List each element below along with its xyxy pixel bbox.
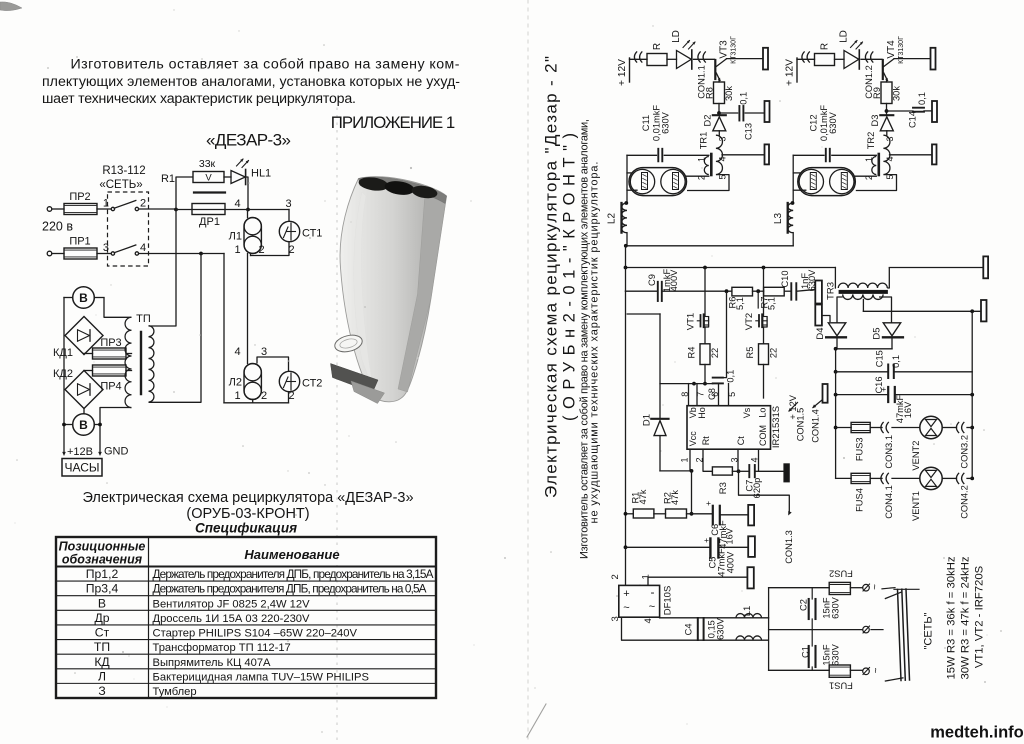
svg-text:FUS2: FUS2 — [829, 569, 853, 579]
transistor VT3 — [714, 60, 716, 79]
wire left rail — [63, 298, 65, 453]
wire lamp feed vertical — [792, 155, 794, 203]
wire — [850, 669, 862, 671]
switch S1 contacts 1-2 — [111, 207, 114, 210]
svg-text:30k: 30k — [724, 86, 734, 101]
svg-text:R8: R8 — [704, 87, 714, 99]
wire pin8 — [688, 384, 690, 406]
svg-text:R4: R4 — [686, 347, 696, 359]
resistor R5 22 — [759, 344, 769, 365]
svg-text:47k: 47k — [638, 489, 648, 504]
svg-text:0,1: 0,1 — [739, 92, 749, 105]
wire — [718, 104, 720, 116]
wire LED to lamp bus — [246, 177, 248, 210]
svg-text:3: 3 — [730, 457, 740, 462]
svg-text:22: 22 — [769, 348, 779, 358]
svg-text:КД1: КД1 — [53, 347, 73, 359]
svg-text:~: ~ — [871, 667, 882, 673]
svg-text:L3: L3 — [773, 213, 784, 225]
resistor R (LED ballast) 2 — [815, 54, 835, 66]
scan speckles — [652, 25, 653, 26]
page fold line — [527, 0, 529, 744]
wire — [822, 316, 830, 323]
wire — [763, 365, 765, 399]
svg-text:+: + — [706, 498, 711, 508]
svg-text:~: ~ — [623, 602, 629, 614]
wire primary right — [887, 268, 889, 289]
svg-text:Л2: Л2 — [229, 377, 242, 389]
svg-text:C15: C15 — [875, 350, 885, 367]
wire — [886, 104, 888, 116]
terminal input bottom — [47, 251, 52, 256]
supply +12В arrow — [62, 452, 66, 456]
svg-text:шает технических характеристик: шает технических характеристик рециркуля… — [42, 91, 356, 107]
wire right fan rail — [971, 311, 973, 478]
wire — [201, 253, 224, 255]
svg-text:~: ~ — [870, 584, 881, 590]
svg-text:5,1: 5,1 — [767, 297, 777, 310]
svg-text:+12В: +12В — [67, 446, 93, 458]
mains pin circle — [863, 584, 870, 591]
page corner mark bottom-left of right page — [527, 704, 546, 737]
node junction — [725, 289, 729, 293]
svg-text:7: 7 — [696, 392, 706, 397]
svg-text:Трансформатор ТП 112-17: Трансформатор ТП 112-17 — [153, 642, 291, 654]
svg-text:400V: 400V — [725, 551, 735, 574]
svg-text:Позиционные: Позиционные — [59, 540, 146, 554]
svg-text:4: 4 — [234, 346, 240, 358]
svg-text:C10: C10 — [780, 270, 790, 287]
svg-text:TR2: TR2 — [866, 132, 876, 150]
node junction under switch — [199, 252, 203, 256]
block ЧАСЫ — [62, 459, 102, 477]
svg-text:Vs: Vs — [742, 407, 752, 418]
svg-text:не ухудшающими технических хар: не ухудшающими технических характеристик… — [588, 162, 600, 524]
svg-text:630V: 630V — [828, 111, 838, 134]
svg-text:630V: 630V — [716, 617, 726, 640]
wire — [52, 208, 64, 210]
capacitor C9 1mkF 400V — [626, 290, 657, 292]
terminal plate — [765, 144, 770, 164]
svg-text:Rt: Rt — [701, 436, 711, 445]
svg-text:16V: 16V — [725, 527, 735, 544]
svg-text:CON3.2: CON3.2 — [959, 435, 969, 469]
wire pin3 mains — [622, 617, 769, 640]
wire — [753, 290, 764, 292]
svg-text:ДР1: ДР1 — [199, 216, 220, 228]
svg-text:30k: 30k — [891, 86, 901, 101]
wire — [694, 58, 715, 60]
wire left supply rail — [625, 291, 627, 585]
svg-text:В: В — [79, 418, 88, 432]
fan B2 — [73, 414, 95, 436]
transistor VT1 mosfet — [704, 268, 706, 317]
fuse ПР3 — [93, 348, 127, 359]
wire lamp1 to lamp2 — [247, 254, 249, 364]
wire pin1 to common plate — [648, 577, 747, 585]
wire filtered node rail — [768, 588, 770, 671]
fan row FUS4 VENT1 — [836, 477, 852, 479]
wire pin5 loop — [856, 175, 897, 191]
wire pin4 to plate — [890, 154, 933, 156]
svg-text:C13: C13 — [744, 123, 754, 140]
connector CON1.1 — [698, 51, 701, 62]
svg-text:СТ2: СТ2 — [302, 378, 322, 390]
svg-text:R13-112: R13-112 — [102, 165, 145, 177]
svg-text:C2: C2 — [798, 599, 808, 611]
wire pin4 to plate — [722, 154, 765, 156]
svg-text:Спецификация: Спецификация — [195, 521, 297, 536]
svg-text:«СЕТЬ»: «СЕТЬ» — [99, 179, 142, 191]
starter СТ2 — [279, 371, 299, 391]
resistor R9 30k — [881, 82, 892, 104]
wire DC rail lower with C16 — [836, 394, 888, 396]
perforation dotted line — [336, 108, 338, 744]
wire pin5 loop — [687, 175, 729, 191]
svg-text:CON1.4: CON1.4 — [810, 409, 820, 443]
svg-text:Пр3,4: Пр3,4 — [86, 582, 119, 596]
resistor R1 47k — [626, 513, 634, 515]
wire pin7 — [696, 384, 698, 406]
wire — [654, 513, 666, 515]
wire lamp feed vertical — [626, 155, 628, 203]
transformer TR3 — [834, 268, 836, 289]
svg-text:C9: C9 — [647, 274, 657, 286]
terminal plate — [747, 567, 753, 588]
terminal plate — [981, 300, 987, 321]
svg-text:3: 3 — [885, 136, 895, 141]
svg-text:DF10S: DF10S — [663, 586, 674, 616]
IC U1 IR21531S — [687, 406, 771, 450]
wire center tap — [862, 300, 864, 312]
fuse ПР2 — [64, 204, 97, 215]
svg-text:LD: LD — [671, 30, 682, 43]
wire — [763, 327, 765, 344]
wire — [627, 313, 660, 315]
svg-text:L1: L1 — [742, 606, 753, 617]
svg-text:Л1: Л1 — [229, 231, 242, 243]
terminal plate pair TR3 input — [815, 281, 822, 304]
svg-text:5: 5 — [727, 392, 737, 397]
capacitor C10 1nF 630V — [784, 290, 790, 292]
choke L1 common-mode — [736, 614, 762, 618]
diode D2 — [713, 114, 726, 116]
wire — [139, 208, 176, 210]
svg-text:C14: C14 — [908, 111, 918, 128]
svg-text:Стартер PHILIPS S104 –65W 220–: Стартер PHILIPS S104 –65W 220–240V — [153, 628, 358, 640]
svg-text:В: В — [98, 596, 106, 610]
terminal plate — [748, 536, 755, 557]
node junction — [885, 109, 889, 113]
svg-text:КТ3130Г: КТ3130Г — [898, 36, 905, 64]
capacitor C8 0,1 — [713, 377, 723, 379]
svg-text:обозначения: обозначения — [62, 553, 143, 567]
svg-text:КТ3130Г: КТ3130Г — [730, 36, 737, 64]
terminal plate — [932, 101, 937, 122]
lamp Л1 — [247, 210, 249, 218]
svg-text:R9: R9 — [872, 87, 882, 99]
wire lamp top bus — [176, 209, 289, 211]
svg-text:47k: 47k — [670, 490, 680, 505]
resistor R (LED ballast) 1 — [647, 54, 667, 66]
svg-text:630V: 630V — [831, 596, 841, 619]
svg-text:IR21531S: IR21531S — [771, 406, 782, 448]
svg-text:4: 4 — [643, 618, 654, 623]
connector CON1.4 — [823, 384, 828, 403]
wire DC rail upper with C15 — [836, 371, 888, 373]
resistor R8 30k — [714, 82, 725, 104]
resistor R6 5,1 — [732, 287, 753, 296]
capacitor C6 47mkF 16V — [712, 506, 714, 525]
svg-text:ПРИЛОЖЕНИЕ 1: ПРИЛОЖЕНИЕ 1 — [331, 113, 456, 132]
svg-text:3: 3 — [261, 346, 267, 358]
wire — [704, 327, 706, 344]
svg-text:D1: D1 — [642, 414, 653, 426]
svg-text:ТП: ТП — [94, 640, 110, 654]
table Спецификация — [56, 537, 436, 698]
wire lamp2 bottom — [224, 402, 289, 404]
svg-text:ПР1: ПР1 — [69, 236, 90, 248]
svg-text:R: R — [819, 43, 830, 50]
node junction — [717, 111, 721, 115]
svg-text:630V: 630V — [660, 111, 670, 134]
svg-text:1: 1 — [864, 157, 874, 162]
svg-text:0,1: 0,1 — [917, 92, 927, 105]
wire pin1 — [832, 154, 877, 156]
svg-text:Тумблер: Тумблер — [153, 686, 197, 698]
wire — [704, 365, 706, 384]
wire pin2 — [687, 175, 709, 177]
wire — [797, 58, 815, 60]
svg-text:1: 1 — [234, 390, 240, 402]
svg-text:33к: 33к — [199, 158, 216, 170]
choke ДР1 — [194, 191, 225, 193]
svg-text:CON4.2: CON4.2 — [959, 485, 969, 519]
svg-text:0,1: 0,1 — [725, 370, 735, 383]
resistor R3 — [712, 467, 732, 475]
wire cathode join — [836, 348, 892, 350]
svg-text:CON4.1: CON4.1 — [884, 485, 894, 519]
svg-text:Л: Л — [98, 669, 106, 683]
svg-text:22: 22 — [710, 348, 720, 358]
svg-text:D2: D2 — [703, 115, 713, 127]
wire collector — [727, 58, 764, 60]
wire lamp1 bottom — [251, 242, 290, 256]
svg-text:КД2: КД2 — [53, 368, 73, 380]
wire — [861, 58, 882, 60]
svg-text:ПР3: ПР3 — [100, 337, 121, 349]
wire long vertical to lamp2 circuit — [223, 254, 225, 403]
LED LD 2 — [844, 51, 859, 69]
svg-text:Электрическая схема рециркулят: Электрическая схема рециркулятора "Дезар… — [541, 56, 560, 498]
svg-text:1: 1 — [697, 157, 707, 162]
svg-text:R1: R1 — [161, 173, 175, 185]
terminal plate — [931, 48, 936, 70]
capacitor C2 15nF 630V — [811, 588, 813, 599]
terminal plate solid — [784, 464, 789, 482]
wire D1 to Vcc to R2 — [660, 470, 692, 472]
wire lamp2 top to starter — [257, 357, 289, 371]
transistor VT4 — [882, 60, 884, 79]
photo top vents — [358, 176, 389, 193]
wire to FUS1 — [769, 669, 830, 671]
svg-text:D3: D3 — [870, 115, 880, 127]
svg-text:400V: 400V — [669, 269, 679, 292]
wire — [667, 58, 677, 60]
svg-text:FUS1: FUS1 — [829, 681, 853, 691]
svg-text:0,1: 0,1 — [891, 355, 901, 368]
svg-text:Ho: Ho — [697, 407, 707, 419]
ground GND arrow — [98, 452, 102, 456]
connector break — [634, 51, 637, 62]
wire — [850, 587, 862, 589]
capacitor C12 0,01mkF 630V — [825, 149, 827, 162]
wire to FUS2 — [769, 587, 830, 589]
wire — [882, 588, 895, 589]
wire pin2 — [855, 175, 876, 177]
terminal plate — [932, 144, 937, 164]
svg-text:Пр1,2: Пр1,2 — [86, 567, 119, 581]
svg-text:630V: 630V — [831, 643, 841, 666]
mains cable СЕТЬ symbol — [898, 590, 902, 681]
wire secondary left to D4 — [837, 297, 843, 323]
svg-text:CON1.5: CON1.5 — [796, 408, 806, 442]
svg-text:Vcc: Vcc — [688, 431, 698, 447]
svg-text:ЧАСЫ: ЧАСЫ — [64, 461, 99, 475]
svg-text:+ 12V: + 12V — [784, 59, 795, 86]
svg-text:-: - — [651, 585, 655, 599]
resistor R7 5,1 — [764, 287, 785, 296]
fuse FUS1 — [829, 665, 850, 677]
svg-text:плектующих элементов аналогами: плектующих элементов аналогами, установк… — [42, 74, 460, 90]
svg-text:R: R — [652, 43, 663, 50]
fan row FUS3 VENT2 — [836, 427, 852, 429]
wire transformer primary top — [149, 210, 177, 327]
svg-text:4: 4 — [234, 198, 240, 210]
svg-text:VT4: VT4 — [886, 40, 897, 59]
svg-text:1: 1 — [680, 457, 690, 462]
svg-text:+: + — [704, 535, 709, 545]
svg-text:L2: L2 — [607, 213, 618, 225]
diode D3 — [880, 114, 893, 116]
wire — [792, 233, 794, 246]
wire pin2 Rt — [703, 449, 712, 471]
svg-text:VT3: VT3 — [718, 40, 729, 59]
capacitor C16 47mkF 16V — [887, 387, 889, 402]
wire — [97, 253, 111, 255]
svg-text:Др: Др — [94, 611, 109, 625]
svg-text:2: 2 — [258, 244, 264, 256]
svg-text:R3: R3 — [718, 482, 729, 494]
transistor VT2 mosfet — [763, 268, 765, 317]
rectifier bridge КД2 — [65, 371, 103, 409]
svg-text:C16: C16 — [874, 376, 884, 393]
svg-text:Ст: Ст — [95, 626, 110, 640]
svg-text:LD: LD — [838, 30, 849, 43]
choke L2 — [620, 203, 622, 233]
svg-text:GND: GND — [104, 446, 129, 458]
lamp tube 1 — [629, 168, 687, 196]
svg-text:+ 12V: + 12V — [617, 59, 628, 86]
wire collector — [894, 58, 931, 60]
diode D1 — [659, 314, 661, 418]
wire — [719, 112, 738, 114]
svg-text:C1: C1 — [800, 646, 810, 658]
svg-text:Lo: Lo — [758, 408, 768, 418]
svg-text:VENT2: VENT2 — [911, 441, 921, 471]
svg-text:8: 8 — [680, 392, 690, 397]
svg-text:"СЕТЬ": "СЕТЬ" — [922, 612, 934, 649]
fan B1 — [73, 287, 95, 309]
svg-text:~: ~ — [649, 601, 655, 613]
svg-text:D5: D5 — [871, 327, 882, 339]
capacitor C11 0,01mkF 630V — [657, 149, 659, 162]
svg-text:Наименование: Наименование — [244, 547, 339, 562]
svg-text:Ct: Ct — [736, 436, 746, 445]
wire winding bottom left — [100, 408, 132, 453]
svg-text:220 в: 220 в — [42, 220, 73, 234]
svg-text:COM: COM — [758, 425, 768, 446]
svg-text:HL1: HL1 — [251, 168, 271, 180]
fuse ПР1 — [64, 248, 97, 259]
wire transformer bottom return — [149, 254, 202, 403]
terminal plate — [983, 256, 988, 278]
wire chip top bus — [660, 383, 713, 385]
svg-text:3: 3 — [285, 198, 291, 210]
transformer TR1 — [716, 135, 723, 174]
wire pin4 COM — [758, 449, 760, 471]
connector CON1.2 — [865, 51, 868, 62]
wire bus to TR3 primary — [626, 267, 836, 269]
LED HL1 — [231, 171, 245, 184]
wire — [52, 253, 64, 255]
wire — [625, 246, 627, 291]
svg-text:Держатель предохранителя ДПБ,: Держатель предохранителя ДПБ, предохрани… — [153, 567, 434, 581]
capacitor C5 47mkF 400V — [624, 545, 628, 549]
svg-text:C12: C12 — [809, 114, 819, 131]
capacitor C7 620p — [739, 470, 749, 472]
terminal plate — [748, 505, 754, 526]
svg-text:«ДЕЗАР-3»: «ДЕЗАР-3» — [206, 130, 291, 149]
switch S1 contacts 3-4 — [111, 252, 114, 255]
resistor R2 47k — [666, 509, 687, 518]
svg-text:4: 4 — [885, 156, 895, 161]
wire — [104, 298, 132, 318]
svg-text:ПР2: ПР2 — [69, 191, 90, 203]
svg-text:Изготовитель оставляет за собо: Изготовитель оставляет за собой право на… — [71, 56, 460, 72]
svg-text:КД: КД — [94, 655, 110, 669]
photo base dark band — [331, 364, 379, 393]
svg-text:В: В — [79, 291, 88, 305]
svg-text:V: V — [205, 173, 212, 184]
wire — [886, 131, 888, 135]
svg-text:ПР4: ПР4 — [100, 381, 121, 393]
svg-text:D4: D4 — [815, 327, 826, 339]
svg-text:2: 2 — [140, 198, 146, 210]
svg-text:ТП: ТП — [136, 313, 151, 325]
svg-text:Дроссель 1И 15А 03 220-230V: Дроссель 1И 15А 03 220-230V — [153, 613, 311, 625]
resistor R4 22 — [700, 344, 710, 365]
wire secondary right to D5 — [879, 297, 892, 323]
svg-text:15W R3 = 36k f = 30kHz: 15W R3 = 36k f = 30kHz — [946, 556, 958, 679]
terminal plate — [765, 101, 770, 122]
svg-text:FUS3: FUS3 — [855, 437, 865, 461]
capacitor C13 0,1 — [738, 106, 740, 121]
svg-text:1: 1 — [234, 244, 240, 256]
rectifier bridge КД1 — [65, 317, 103, 355]
svg-text:2: 2 — [610, 574, 621, 579]
svg-text:Вентилятор JF 0825 2,4W 12V: Вентилятор JF 0825 2,4W 12V — [153, 598, 311, 610]
